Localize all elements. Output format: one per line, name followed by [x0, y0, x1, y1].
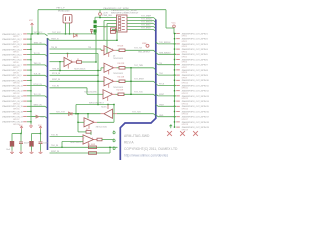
- connector CON3 pin 14 (JTAG/ISP/GPIO_OUT_20PIN#14): [176, 100, 209, 105]
- title block text: [124, 134, 178, 157]
- svg-text:TDO_IN: TDO_IN: [34, 94, 42, 96]
- connector CON1 pin 10 (JTAG/ISP/GPIO_IN_10): [2, 79, 27, 84]
- svg-text:2: 2: [105, 66, 106, 68]
- wire bus entry row9: [45, 75, 48, 77]
- junction right row11: [174, 85, 175, 86]
- bus B2 (right bus with bend): [120, 20, 156, 161]
- connector CON3 pin 13 (JTAG/ISP/GPIO_OUT_20PIN#13): [176, 95, 209, 100]
- svg-text:GPIO1: GPIO1: [13, 36, 19, 38]
- wire CON2 pin9: [112, 29, 117, 31]
- svg-text:GPIO14: GPIO14: [182, 103, 189, 105]
- op-amp U5 (74LVC1G125 buffer): [103, 90, 113, 101]
- wire bus entry row1: [45, 34, 48, 36]
- bus entry TGT_SRST: [154, 81, 156, 83]
- svg-text:GPIO2: GPIO2: [13, 41, 19, 43]
- junction x110: [109, 147, 110, 148]
- svg-text:TRST: TRST: [159, 104, 165, 106]
- wire net row12: [27, 90, 31, 92]
- wire CON2 right TGT_SWO: [127, 26, 154, 28]
- junction TRST riser: [116, 40, 117, 41]
- connector CON3 pin 5 (JTAG/ISP/GPIO_OUT_20PIN#5): [176, 53, 208, 58]
- connector CON1 pin 15 (JTAG/ISP/GPIO_IN_15): [2, 105, 27, 110]
- wire TRST_N bus exit: [48, 38, 50, 40]
- net port GND_DETECT: [146, 44, 149, 47]
- junction C3: [40, 133, 41, 134]
- wire net row11: [27, 85, 45, 87]
- junction row18: [30, 121, 31, 122]
- U4 output pin: [114, 80, 117, 82]
- wire riser x62: [61, 142, 63, 148]
- supply arrow VCC C3: [39, 126, 42, 130]
- wire net row2: [27, 38, 31, 40]
- wire bus entry row17: [45, 117, 48, 119]
- wire VCC drop C1: [21, 130, 23, 134]
- connector CON3 pin 18 (JTAG/ISP/GPIO_OUT_20PIN#18): [176, 121, 209, 126]
- connector CON1 pin 9 (JTAG/ISP/GPIO_IN_9): [2, 74, 27, 79]
- wire U8 out: [102, 139, 113, 141]
- svg-text:GPIO1: GPIO1: [182, 36, 188, 38]
- junction top rail / VTREF: [37, 33, 38, 34]
- X mark 3: [193, 131, 198, 136]
- svg-text:2: 2: [104, 93, 105, 95]
- junction right row14: [174, 100, 175, 101]
- junction row14: [30, 100, 31, 101]
- wire VCC stub: [31, 27, 33, 34]
- svg-text:SRST_IN: SRST_IN: [52, 79, 61, 81]
- svg-text:GPIO3: GPIO3: [13, 47, 19, 49]
- junction C1: [20, 133, 21, 134]
- svg-text:GND_DETECT: GND_DETECT: [138, 52, 151, 54]
- junction right row16: [174, 111, 175, 112]
- wire bus to right pin TDI: [156, 63, 158, 65]
- wire into U5: [87, 93, 103, 95]
- wire C4 lead: [40, 134, 42, 142]
- wire TDI jog: [100, 49, 102, 50]
- svg-text:GPIO5: GPIO5: [182, 57, 188, 59]
- wire C3 top link: [32, 133, 41, 135]
- connector CON1 pin 8 (JTAG/ISP/GPIO_IN_8): [2, 69, 27, 74]
- svg-text:GPIO14: GPIO14: [13, 103, 20, 105]
- wire VCC elbow: [174, 33, 176, 35]
- junction OE / TMS: [97, 70, 98, 71]
- svg-text:TRST_IN: TRST_IN: [34, 43, 43, 45]
- svg-text:4: 4: [112, 80, 113, 82]
- svg-text:GPIO17: GPIO17: [182, 119, 189, 121]
- capacitor C2 (100nF): [19, 142, 23, 144]
- connector CON1 pin 7 (JTAG/ISP/GPIO_IN_7): [2, 64, 27, 69]
- svg-text:TGT_TMS: TGT_TMS: [134, 65, 144, 67]
- small green supply mark above X1: [170, 125, 173, 129]
- svg-text:4: 4: [93, 121, 94, 123]
- svg-text:74LVC: 74LVC: [101, 107, 107, 109]
- svg-text:74LVC1G125: 74LVC1G125: [113, 87, 123, 89]
- wire U8 input A: [50, 136, 84, 138]
- wire net row15: [27, 105, 45, 107]
- U7 output pin: [94, 121, 97, 123]
- wire SWCLK detect: [76, 104, 114, 106]
- wire U1 out: [82, 61, 97, 63]
- wire net row4: [27, 48, 31, 50]
- svg-text:2: 2: [105, 49, 106, 51]
- wire CON2 right TGT_VREF: [127, 17, 154, 19]
- junction RTCK / OE chain: [97, 75, 98, 76]
- svg-text:4: 4: [112, 49, 113, 51]
- svg-text:GPIO18: GPIO18: [182, 124, 189, 126]
- wire CON2 pin3: [104, 20, 117, 22]
- wire SRST_IN bottom: [50, 152, 111, 154]
- junction jumper / rail: [94, 33, 95, 34]
- svg-text:4: 4: [71, 60, 72, 62]
- junction Q1 source / rail: [69, 33, 70, 34]
- wire net row13: [27, 95, 45, 97]
- junction Q1 drain / rail: [65, 33, 66, 34]
- svg-text:2: 2: [105, 80, 106, 82]
- net port GND row17: [31, 115, 45, 118]
- wire C4 gnd lead: [40, 144, 42, 151]
- connector CON3 pin 17 (JTAG/ISP/GPIO_OUT_20PIN#17): [176, 116, 209, 121]
- junction row16: [30, 111, 31, 112]
- junction right row10: [174, 80, 175, 81]
- junction x78: [77, 113, 78, 114]
- wire C1 top link: [12, 133, 21, 135]
- svg-text:TGT_SRST: TGT_SRST: [134, 79, 145, 81]
- wire TCK feed: [50, 87, 88, 89]
- svg-text:GPIO15: GPIO15: [182, 109, 189, 111]
- svg-text:GPIO13: GPIO13: [13, 98, 20, 100]
- wire U4 out to R11: [117, 80, 120, 82]
- wire CON2 right TGT_SWDIO: [127, 20, 154, 22]
- svg-text:VCC: VCC: [29, 20, 34, 22]
- svg-text:GPIO9: GPIO9: [182, 77, 188, 79]
- svg-text:JTAG/ISP/GPIO_OUT_10PIN#: JTAG/ISP/GPIO_OUT_10PIN#: [111, 9, 138, 12]
- wire C2 gnd lead: [20, 144, 22, 151]
- wire +3.3V to SWD rail: [99, 15, 101, 17]
- op-amp U7 (74LVC1G125 buffer): [84, 118, 94, 129]
- wire jumper bottom: [94, 33, 96, 34]
- resistor R12: [118, 93, 124, 96]
- svg-text:VREF: VREF: [142, 43, 147, 45]
- svg-text:TCK_IN: TCK_IN: [51, 134, 58, 136]
- bus entry TGT_TCK: [154, 94, 156, 96]
- op-amp U3 (74LVC1G125 buffer): [104, 63, 114, 74]
- capacitor C4 (100nF): [39, 142, 43, 144]
- svg-text:2: 2: [85, 121, 86, 123]
- connector CON3 pin 12 (JTAG/ISP/GPIO_OUT_20PIN#12): [176, 90, 209, 95]
- svg-text:TMS_IN: TMS_IN: [52, 68, 60, 70]
- wire bus entry row13: [45, 96, 48, 98]
- connector CON2 (SWD 10-pin): [111, 9, 139, 32]
- junction row2: [30, 38, 31, 39]
- wire riser x78: [77, 114, 79, 123]
- svg-text:74LVC1G125W5: 74LVC1G125W5: [84, 92, 97, 94]
- U1 OE pin stub: [67, 54, 69, 58]
- connector CON1 pin 18 (JTAG/ISP/GPIO_IN_18): [2, 121, 27, 126]
- wire OE net: [50, 53, 99, 55]
- svg-text:+3.3V: +3.3V: [103, 13, 109, 15]
- svg-text:TCK_IN: TCK_IN: [52, 86, 59, 88]
- junction right row7: [174, 64, 175, 65]
- svg-text:74LVC1G125: 74LVC1G125: [113, 73, 123, 75]
- resistor R11: [119, 80, 125, 83]
- junction row10: [30, 80, 31, 81]
- svg-text:74LVC1G125: 74LVC1G125: [70, 142, 81, 144]
- jumper SJ1 pads: [94, 20, 97, 32]
- wire TCK to bus: [124, 93, 154, 95]
- wire bus to right pin RTCK: [156, 84, 158, 86]
- svg-text:GPIO12: GPIO12: [13, 93, 20, 95]
- svg-text:GPIO8: GPIO8: [182, 72, 188, 74]
- wire row18 to ground: [30, 122, 32, 124]
- junction TMS input: [59, 61, 60, 62]
- wire R2 left: [78, 131, 86, 133]
- U2 input pin: [101, 49, 104, 51]
- op-amp U4 (74LVC1G125 buffer): [104, 77, 114, 88]
- wire U7 OE: [87, 114, 89, 119]
- svg-text:TMS_IN: TMS_IN: [34, 63, 42, 65]
- svg-text:IRLML5203: IRLML5203: [58, 10, 70, 12]
- junction right row12: [174, 90, 175, 91]
- ground C1: [10, 151, 14, 154]
- wire bus entry row11: [45, 86, 48, 88]
- wire C3 lead: [31, 134, 33, 142]
- connector CON1 pin 5 (JTAG/ISP/GPIO_IN_5): [2, 54, 27, 59]
- resistor R8: [111, 31, 116, 34]
- svg-text:TDI: TDI: [88, 47, 92, 49]
- wire C2 lead: [20, 134, 22, 142]
- wire U3 out to R10: [117, 67, 120, 69]
- connector CON1 pin 16 (JTAG/ISP/GPIO_IN_16): [2, 110, 27, 115]
- wire TDO_IN middle: [50, 113, 101, 115]
- X mark 2: [180, 131, 185, 136]
- connector CON3 pin 10 (JTAG/ISP/GPIO_OUT_20PIN#10): [176, 79, 209, 84]
- op-amp U1 (74LVC1G125 buffer): [64, 57, 73, 68]
- junction x131 bottom: [130, 94, 131, 95]
- wire riser x110: [109, 147, 111, 153]
- wire riser x114: [113, 105, 115, 123]
- connector CON3 pin 6 (JTAG/ISP/GPIO_OUT_20PIN#6): [176, 58, 208, 63]
- wire net row6: [27, 59, 31, 61]
- wire CON2 pin3 riser: [103, 21, 105, 41]
- wire bus to right pin GND: [156, 115, 158, 117]
- wire SRST to bus: [125, 80, 154, 82]
- wire rail to jumper: [70, 33, 96, 35]
- resistor R3: [97, 138, 102, 141]
- svg-text:FET1_P: FET1_P: [57, 8, 66, 10]
- junction x78 / U7 in: [77, 122, 78, 123]
- svg-text:R7: R7: [104, 27, 106, 29]
- svg-text:GPIO16: GPIO16: [182, 114, 189, 116]
- svg-text:PWR_SEL: PWR_SEL: [103, 15, 113, 17]
- svg-text:GND: GND: [40, 117, 45, 119]
- svg-text:RTCK_IN: RTCK_IN: [52, 73, 61, 75]
- svg-text:TGT_SWO: TGT_SWO: [141, 25, 151, 27]
- svg-text:GPIO8: GPIO8: [13, 72, 19, 74]
- wire CON2 right TGT_SRST: [127, 29, 154, 31]
- wire C1 gnd lead: [11, 146, 13, 151]
- junction right row8: [174, 69, 175, 70]
- wire C1 lead: [11, 134, 13, 142]
- wire CON2 pin1: [100, 17, 117, 19]
- svg-text:http://www.olimex.com/dev/les: http://www.olimex.com/dev/les: [124, 153, 169, 157]
- resistor R7: [111, 28, 116, 31]
- wire Q1 drain: [65, 23, 67, 34]
- junction right row4: [174, 48, 175, 49]
- connector CON3 pin 7 (JTAG/ISP/GPIO_OUT_20PIN#7): [176, 64, 208, 69]
- wire TGT_VCC rail: [48, 33, 70, 35]
- bus entry TGT_TDI: [154, 50, 156, 52]
- svg-text:74LVC1G125: 74LVC1G125: [113, 58, 123, 60]
- svg-text:SWCLK/DETECT: SWCLK/DETECT: [89, 102, 105, 104]
- wire C3 gnd lead: [31, 146, 33, 151]
- wire CON2 pin7 riser: [95, 27, 97, 63]
- svg-text:TGT_TDO: TGT_TDO: [132, 112, 141, 114]
- svg-text:GPIO6: GPIO6: [182, 62, 188, 64]
- wire TMS_IN: [50, 70, 102, 72]
- svg-text:4: 4: [111, 93, 112, 95]
- bus entry TGT_SWCLK: [154, 24, 156, 26]
- U2 output pin: [114, 49, 117, 51]
- svg-text:TGT_VREF: TGT_VREF: [141, 16, 152, 18]
- svg-text:GPIO15: GPIO15: [13, 109, 20, 111]
- svg-text:GPIO6: GPIO6: [13, 62, 19, 64]
- connector CON3 pin 3 (JTAG/ISP/GPIO_OUT_20PIN#3): [176, 43, 208, 48]
- junction right row1: [174, 33, 175, 34]
- wire net row8: [27, 69, 31, 71]
- connector CON1 pin 12 (JTAG/ISP/GPIO_IN_12): [2, 90, 27, 95]
- junction right row18: [174, 121, 175, 122]
- svg-text:GPIO4: GPIO4: [182, 51, 188, 53]
- svg-text:TMS_SWDIO: TMS_SWDIO: [159, 52, 171, 54]
- op-amp U8 (74LVC1G125 buffer): [83, 135, 94, 146]
- svg-text:GPIO3: GPIO3: [182, 46, 188, 48]
- resistor R9: [119, 49, 125, 52]
- resistor R2: [86, 131, 91, 134]
- wire TMS into U3: [101, 67, 104, 69]
- svg-text:2: 2: [84, 138, 85, 140]
- junction x131 top: [130, 67, 131, 68]
- svg-text:R4 100R: R4 100R: [88, 144, 96, 146]
- wire riser x117: [116, 30, 118, 41]
- wire TRST_N: [50, 39, 118, 41]
- svg-text:4: 4: [92, 138, 93, 140]
- ground C3: [30, 151, 34, 154]
- svg-text:ARM-JTAG-SWD: ARM-JTAG-SWD: [124, 134, 150, 138]
- connector CON3 pin 1 (JTAG/ISP/GPIO_OUT_20PIN#1): [176, 32, 208, 37]
- capacitor C3 (10uF electrolytic): [29, 141, 33, 147]
- diode D1: [74, 33, 78, 37]
- junction x88: [87, 113, 88, 114]
- svg-text:TGT_SWCLK: TGT_SWCLK: [141, 22, 153, 24]
- wire OE chain vertical: [97, 54, 99, 105]
- junction right row17: [174, 116, 175, 117]
- connector CON3 pin 15 (JTAG/ISP/GPIO_OUT_20PIN#15): [176, 105, 209, 110]
- wire bus to right pin TRST: [156, 104, 158, 106]
- wire net row16: [27, 110, 31, 112]
- svg-text:R2: R2: [86, 129, 88, 131]
- supply arrow VCC C1: [20, 126, 23, 130]
- svg-text:100nF: 100nF: [24, 142, 30, 144]
- connector CON3 pin 19 (JTAG/ISP/GPIO_OUT_20PIN#19): [176, 126, 209, 131]
- svg-text:GPIO7: GPIO7: [182, 67, 188, 69]
- wire net row7: [27, 64, 45, 66]
- wire CON2 pin7: [96, 26, 117, 28]
- junction right row5: [174, 54, 175, 55]
- net stub curl y=139.5: [113, 139, 115, 142]
- U8 output pin: [94, 139, 98, 141]
- connector CON1 pin 14 (JTAG/ISP/GPIO_IN_14): [2, 100, 27, 105]
- junction x114: [113, 104, 114, 105]
- wire vertical x131: [130, 68, 132, 95]
- wire TMS drop: [59, 62, 61, 71]
- svg-text:TRST_N: TRST_N: [51, 38, 59, 40]
- connector CON1 pin 3 (JTAG/ISP/GPIO_IN_3): [2, 43, 27, 48]
- wire +3.3V top rail horizontal: [38, 9, 166, 11]
- svg-text:TDI_IN: TDI_IN: [51, 47, 58, 49]
- ground top: [29, 124, 33, 127]
- svg-text:100nF: 100nF: [43, 142, 49, 144]
- svg-text:R11 22R: R11 22R: [118, 77, 125, 79]
- wire net row14: [27, 100, 31, 102]
- svg-text:TDI: TDI: [159, 63, 163, 65]
- connector CON1 pin 13 (JTAG/ISP/GPIO_IN_13): [2, 95, 27, 100]
- connector CON3 pin 11 (JTAG/ISP/GPIO_OUT_20PIN#11): [176, 84, 208, 89]
- wire Q1 source: [69, 23, 71, 34]
- svg-text:GPIO12: GPIO12: [182, 93, 189, 95]
- connector CON3 pin 4 (JTAG/ISP/GPIO_OUT_20PIN#4): [176, 48, 208, 53]
- svg-text:TGT_TCK: TGT_TCK: [134, 92, 143, 94]
- net stub curl y=131.5: [113, 131, 115, 134]
- wire TMS jog: [100, 68, 102, 71]
- wire to VCC right: [166, 27, 174, 29]
- svg-text:GPIO17: GPIO17: [13, 119, 20, 121]
- wire bus entry row7: [45, 65, 48, 67]
- svg-text:TGT_TDI: TGT_TDI: [134, 48, 142, 50]
- U6 input pin: [113, 113, 118, 115]
- connector CON3 pin 16 (JTAG/ISP/GPIO_OUT_20PIN#16): [176, 110, 209, 115]
- svg-text:TDO_TGT: TDO_TGT: [56, 112, 66, 114]
- resistor R1: [77, 61, 82, 64]
- svg-text:GPIO4: GPIO4: [13, 52, 19, 54]
- wire RTCK_IN: [50, 74, 99, 76]
- wire U2 out to R9: [117, 49, 120, 51]
- wire TDO to bus: [125, 49, 154, 51]
- svg-text:GND: GND: [159, 115, 164, 117]
- junction U1 out / riser: [95, 61, 96, 62]
- svg-text:GPIO10: GPIO10: [13, 83, 20, 85]
- wire x78 down to R2: [77, 122, 79, 132]
- bus entry TGT_TMS: [154, 68, 156, 70]
- connector CON3 pin 2 (JTAG/ISP/GPIO_OUT_20PIN#2): [176, 38, 208, 43]
- connector CON3 pin 9 (JTAG/ISP/GPIO_OUT_20PIN#9): [176, 74, 208, 79]
- wire bus entry row5: [45, 55, 48, 57]
- svg-text:GPIO13: GPIO13: [182, 98, 189, 100]
- wire net row18: [27, 121, 31, 123]
- svg-text:TDO: TDO: [159, 73, 164, 75]
- svg-text:GPIO2: GPIO2: [182, 41, 188, 43]
- wire bus entry row15: [45, 106, 48, 108]
- svg-text:GPIO9: GPIO9: [13, 78, 19, 80]
- wire VCC drop C3: [40, 130, 42, 134]
- svg-text:4: 4: [112, 66, 113, 68]
- wire top rail right drop: [165, 10, 167, 28]
- junction x62: [61, 147, 62, 148]
- X mark 1: [167, 131, 172, 136]
- wire U7 input: [78, 121, 84, 123]
- connector CON1 pin 1 (JTAG/ISP/GPIO_IN_1): [2, 33, 27, 38]
- wire net row1: [27, 33, 45, 35]
- junction row8: [30, 69, 31, 70]
- svg-text:COPYRIGHT(C) 2011, OLIMEX LTD: COPYRIGHT(C) 2011, OLIMEX LTD: [124, 147, 178, 151]
